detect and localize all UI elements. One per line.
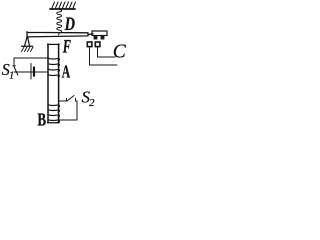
svg-text:C: C	[113, 41, 127, 62]
svg-text:D: D	[64, 15, 75, 35]
svg-text:2: 2	[89, 98, 95, 109]
svg-text:B: B	[37, 109, 46, 129]
svg-text:1: 1	[9, 71, 14, 82]
svg-text:A: A	[62, 62, 71, 82]
svg-text:F: F	[62, 38, 71, 58]
